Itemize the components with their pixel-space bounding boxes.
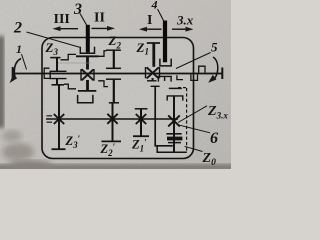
gear Z1 top cap (147, 42, 160, 44)
faint scan artifact line (58, 62, 91, 64)
gear Z3' bottom cap (52, 148, 66, 150)
paper background (0, 0, 231, 169)
gear Z2 inner cap upper (106, 67, 121, 69)
gear Z2 top cap (106, 49, 121, 51)
lower ledge (157, 146, 187, 153)
arrow I (left) (146, 28, 162, 30)
label 2 leader (27, 32, 81, 48)
gear Z1 bottom cap (147, 80, 157, 82)
gear Z3 upper: step below (64, 84, 76, 89)
rotation arrow at shaft 1 (14, 59, 21, 78)
shift fork yoke of lever 4 (160, 59, 171, 66)
left bearing on housing wall (upper shaft) (44, 68, 49, 78)
support bracket (155, 86, 173, 146)
gear Z3 upper: step above (61, 54, 77, 59)
gear Z3.x bottom cap (166, 133, 181, 135)
shift fork yoke of lever 3 (80, 47, 94, 53)
dashed boundary vertical (186, 88, 188, 152)
gear Z1' stem (140, 109, 142, 136)
scan shadow left edge (0, 36, 4, 128)
gear Z3 upper: stem above (56, 58, 58, 72)
gear Z2 stem below (113, 79, 115, 103)
gear Z3.x top cap (169, 87, 182, 89)
input shaft sleeve/hub (50, 71, 66, 78)
collar below lever 4 (158, 76, 172, 81)
support bracket cap (151, 85, 160, 87)
ghost print bottom-left (2, 143, 34, 161)
bearing bracket below shaft at housing right wall (191, 75, 198, 81)
label 5 leader (176, 53, 211, 69)
block gear (Z3 sliding) top wide cap (76, 55, 99, 57)
shift lever 3 bar (86, 25, 90, 53)
gear Z2 lower cap (109, 102, 119, 104)
gear Z2' stem (112, 103, 114, 141)
label Z0 leader (185, 146, 203, 151)
gear Z1 stem below (152, 78, 154, 81)
gear Z1' fixed joint X (136, 114, 146, 124)
upper shaft (input/output line) (13, 73, 222, 75)
gear Z2 inner cap lower (106, 78, 121, 80)
gear Z1 stem (152, 43, 155, 67)
label 4 leader (158, 9, 164, 21)
upper shaft left end tick (12, 67, 14, 80)
block gear X joint on shaft (82, 69, 94, 80)
gear Z1' bottom cap (133, 135, 149, 137)
step link below shaft (98, 81, 108, 87)
bearing tick inside wall (177, 75, 183, 79)
gear Z3.x hat (167, 96, 183, 101)
bearing bracket above shaft at housing right wall (199, 66, 205, 72)
gear Z3 upper: top cap (50, 57, 60, 59)
gear Z0 lower cap (168, 142, 181, 144)
collar U below block (78, 95, 93, 103)
gear Z2' fixed joint X (107, 114, 117, 124)
label 1 leader (22, 54, 27, 70)
step link to gear Z2 above (99, 51, 107, 57)
gear Z3.x fixed joint X (168, 115, 180, 126)
label 3 leader (80, 14, 87, 26)
gear Z1 X joint on shaft (147, 67, 159, 78)
rotation arrow at shaft 5 (213, 57, 218, 79)
arrow II (right) (92, 27, 109, 29)
arrow 3.x (right) (172, 28, 187, 30)
arrow III (left) (60, 28, 79, 30)
scan shadow bottom edge (0, 164, 235, 171)
gear Z3 mesh cap (52, 84, 65, 86)
gear Z2' bottom cap (102, 140, 122, 142)
block gear bottom wide cap (78, 90, 96, 92)
lower countershaft (46, 118, 178, 120)
upper shaft right end tick (221, 68, 223, 80)
gear Z0 thick rim (167, 137, 182, 141)
lower shaft left end bracket (47, 116, 53, 122)
dashed boundary top (178, 87, 187, 89)
gear Z1' top cap (135, 108, 148, 110)
gear Z2 stem above (113, 50, 115, 68)
housing interior lighter wash (44, 39, 193, 157)
label Z3.x leader (178, 106, 207, 123)
label 6 leader (178, 125, 210, 133)
gear Z3 upper: stem below (56, 79, 58, 85)
gear Z1 flanking hub lines (146, 67, 160, 78)
gear Z3' fixed joint X (54, 114, 64, 124)
gear Z3' lower: stem (58, 86, 60, 150)
gearbox housing (42, 38, 194, 159)
shift lever 4 bar (163, 21, 167, 63)
block gear stem below (86, 80, 89, 91)
gear Z3.x stem (173, 96, 175, 152)
block gear stem above (86, 56, 89, 69)
block gear flanking hub lines (81, 69, 94, 81)
